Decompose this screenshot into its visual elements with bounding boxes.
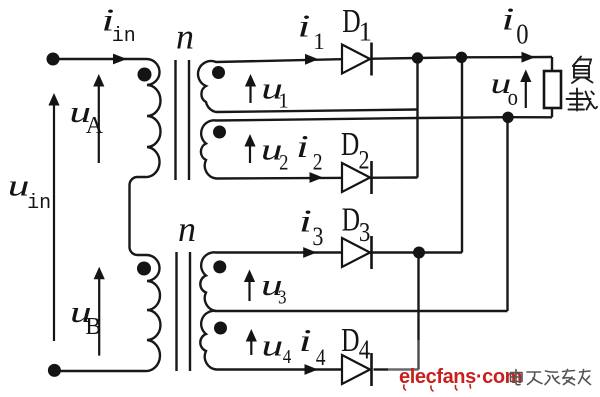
svg-text:3: 3: [278, 286, 287, 309]
svg-text:in: in: [112, 25, 136, 48]
svg-text:D: D: [342, 200, 360, 238]
svg-text:i: i: [299, 322, 312, 358]
svg-text:o: o: [508, 84, 518, 111]
svg-text:u: u: [262, 328, 284, 363]
svg-text:D: D: [341, 124, 359, 162]
svg-text:in: in: [27, 192, 51, 215]
svg-text:i: i: [296, 128, 309, 164]
svg-text:i: i: [299, 203, 312, 239]
svg-text:3: 3: [359, 218, 370, 247]
svg-text:0: 0: [516, 19, 528, 50]
svg-text:n: n: [178, 209, 196, 249]
svg-text:1: 1: [313, 29, 325, 54]
svg-text:2: 2: [279, 151, 288, 175]
svg-text:i: i: [298, 8, 311, 44]
svg-text:i: i: [502, 1, 515, 37]
svg-text:elecfans·com: elecfans·com: [399, 366, 522, 388]
svg-text:D: D: [341, 320, 359, 358]
svg-text:1: 1: [359, 17, 373, 47]
svg-text:4: 4: [359, 336, 371, 365]
svg-text:A: A: [86, 113, 104, 139]
svg-text:n: n: [176, 17, 194, 57]
svg-text:2: 2: [313, 149, 323, 175]
svg-text:1: 1: [278, 89, 289, 113]
svg-text:2: 2: [359, 147, 370, 175]
svg-text:B: B: [85, 314, 101, 340]
svg-text:4: 4: [316, 345, 326, 371]
svg-text:4: 4: [283, 346, 292, 369]
svg-text:3: 3: [312, 223, 323, 251]
